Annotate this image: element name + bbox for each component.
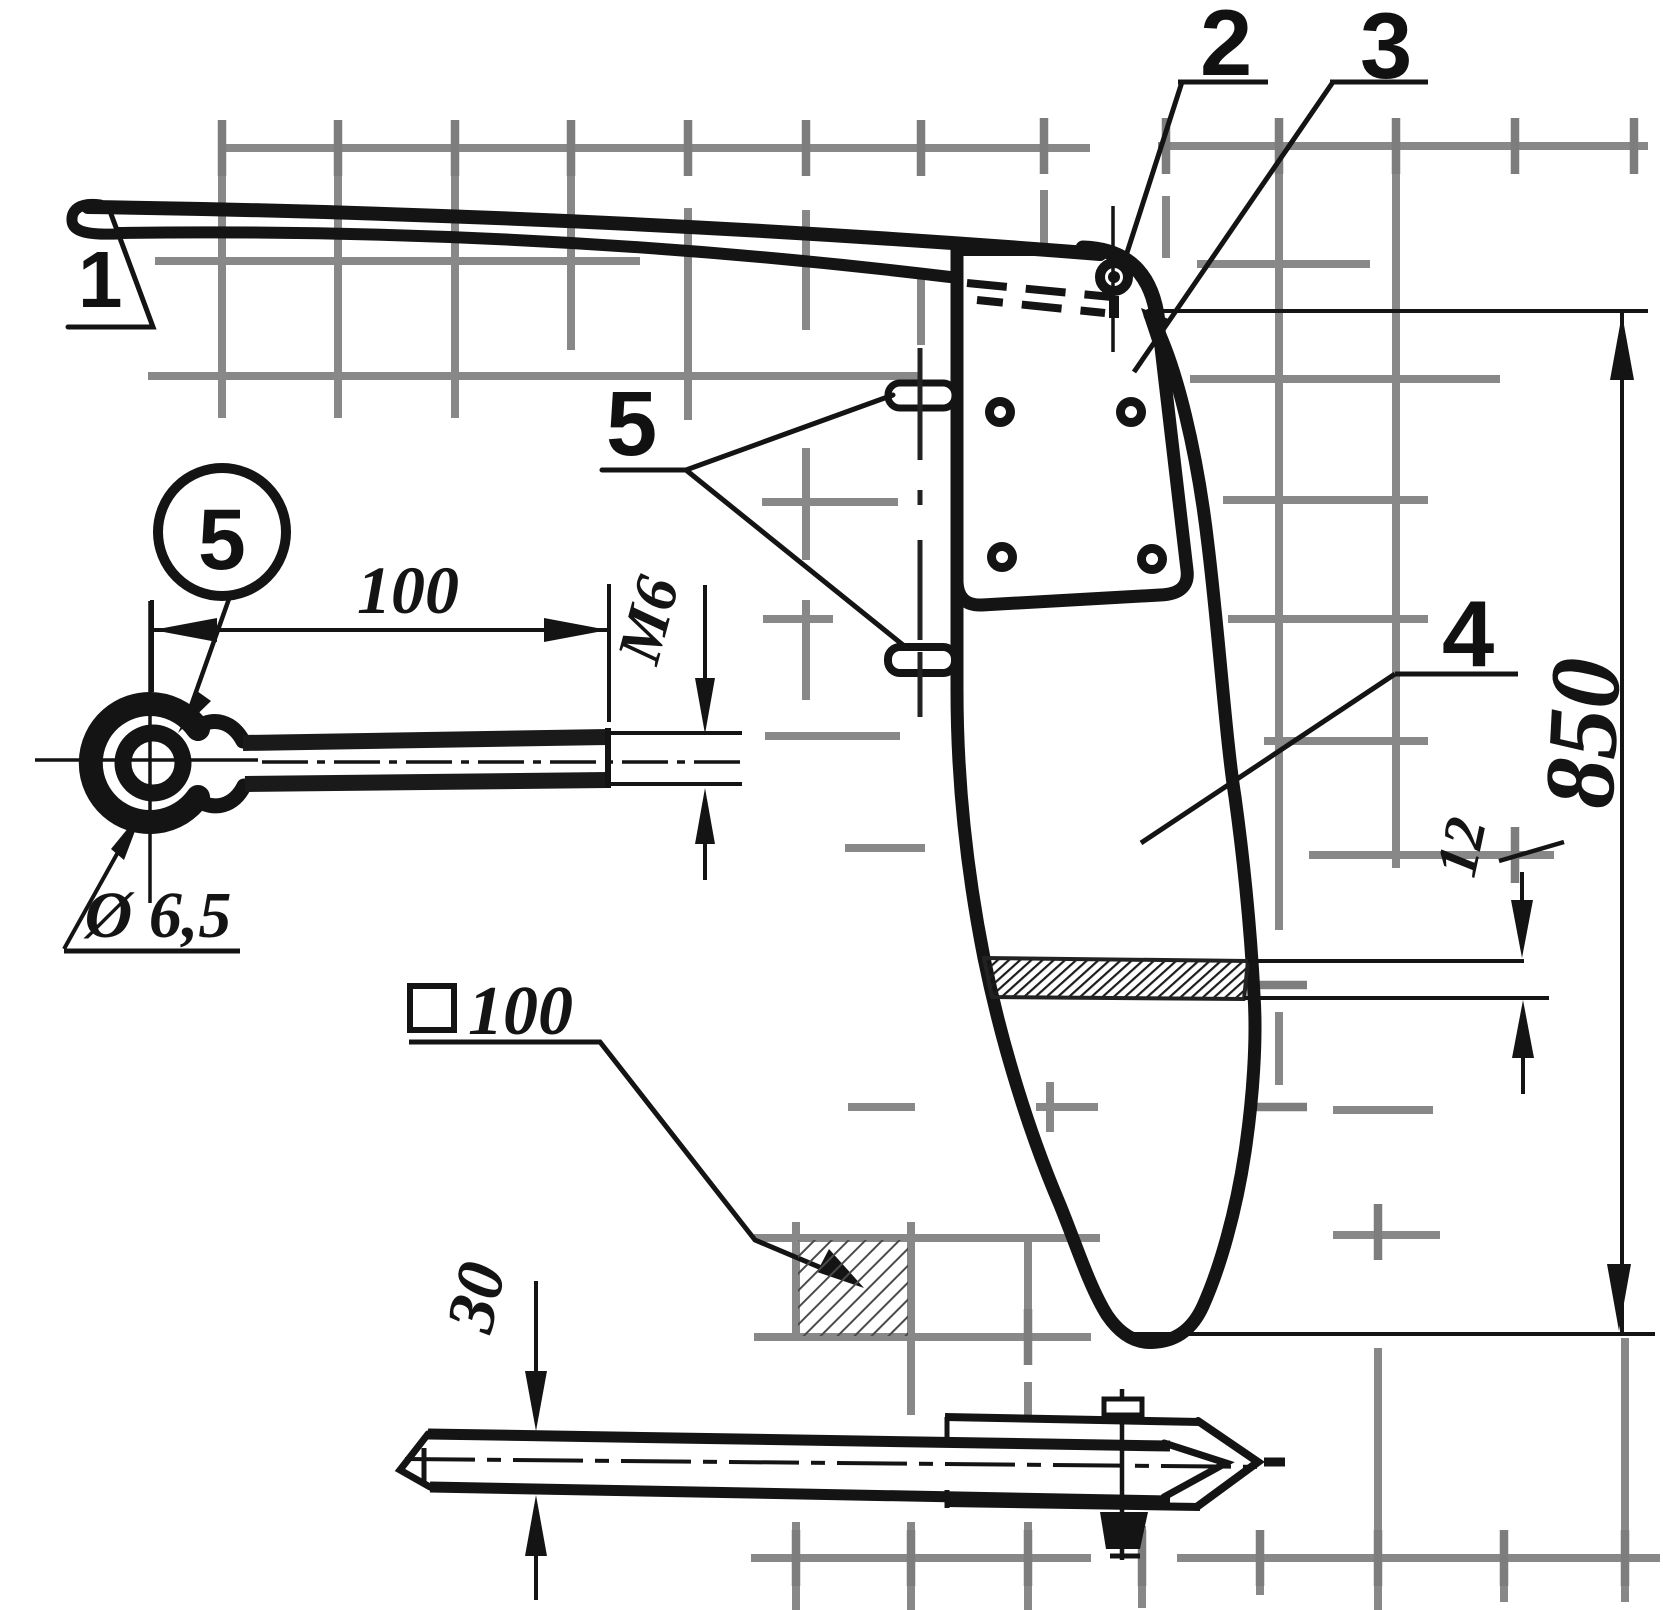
svg-text:1: 1: [78, 235, 123, 324]
dimension 12: [1520, 872, 1524, 905]
dimension M6: [604, 569, 692, 671]
balloon leader arrow: [191, 596, 230, 706]
rudder head plate (item 3): [957, 255, 1187, 605]
plate top edge: [957, 246, 1095, 256]
eye ring: [91, 704, 198, 822]
blade plan centerline: [405, 1459, 1268, 1467]
head plate plan (bracket): [945, 1417, 1200, 1422]
grid crossing ticks: [222, 118, 1634, 1586]
svg-text:4: 4: [1442, 581, 1494, 686]
tiller (item 1) top bar: [88, 207, 1100, 254]
svg-text:5: 5: [198, 492, 246, 588]
balloon 5 (detail callout): [158, 468, 286, 596]
bolt in plan: [1120, 1389, 1125, 1560]
eye-to-shank hooks: [198, 722, 243, 741]
blade plan left tip: [400, 1434, 430, 1487]
eye-bolt detail: centerlines: [35, 758, 258, 762]
bottom view: blade plan: [428, 1434, 1170, 1446]
svg-text:100: 100: [468, 973, 573, 1050]
svg-text:850: 850: [1523, 655, 1642, 811]
pins centerline (dash-dot): [918, 348, 923, 717]
tiller bottom bar: [118, 232, 950, 277]
shank edge extension lines: [608, 731, 742, 735]
rudder blade (item 4) outline: [957, 248, 1255, 1342]
dimension 100 (detail): [150, 600, 154, 692]
plan tip chevrons: [1198, 1421, 1258, 1506]
svg-text:Ø 6,5: Ø 6,5: [83, 879, 232, 952]
pivot corner: [1083, 248, 1158, 322]
square 100 note: [410, 986, 454, 1030]
dimension 850: [1157, 309, 1648, 313]
blade cross-section band (12 mm): [984, 958, 1248, 999]
tiller left end cap: [72, 204, 118, 234]
svg-text:5: 5: [606, 373, 657, 475]
hidden fork edges (dashed): [967, 283, 1112, 297]
eye-bolt pins on blade (item 5): [888, 383, 955, 408]
shank (threaded M6 rod): [243, 737, 608, 743]
dimension 30: [431, 1255, 521, 1339]
hatched grid square (100x100): [798, 1240, 908, 1336]
plate holes: [990, 402, 1011, 423]
pivot bolt (item 2): [1100, 263, 1128, 291]
eye hole (d 6.5): [123, 733, 183, 793]
svg-text:100: 100: [357, 552, 459, 628]
